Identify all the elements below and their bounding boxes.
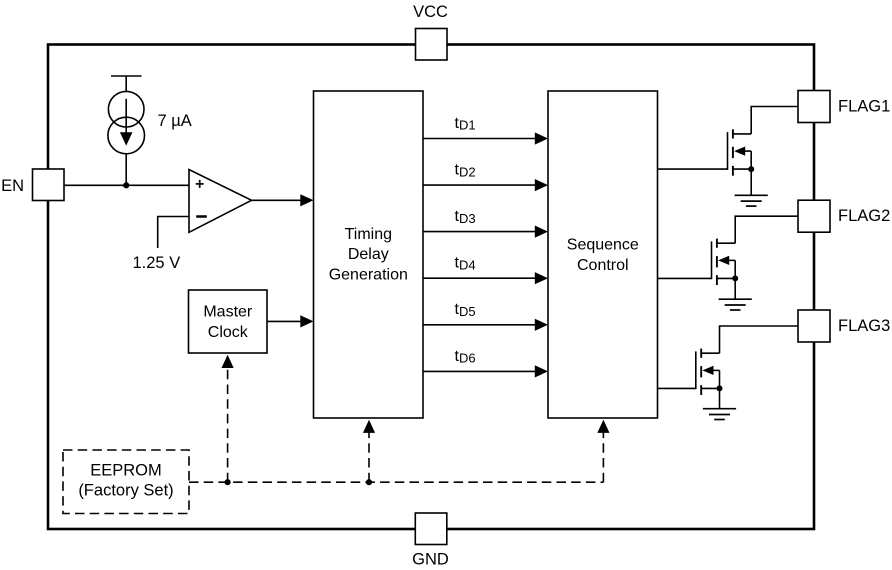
svg-text:Delay: Delay — [348, 246, 389, 263]
dashed wire: bus branch up to Sequence Control — [602, 432, 604, 483]
wire: 1.25 V reference to inverting input — [158, 217, 189, 249]
svg-text:tD3: tD3 — [455, 208, 476, 226]
svg-text:GND: GND — [412, 550, 449, 568]
wire: EN pin to comparator non-inverting input — [64, 184, 189, 186]
svg-text:tD4: tD4 — [455, 255, 476, 273]
transistor Q1 — [728, 129, 752, 175]
wire: Sequence Control output to Q3 gate — [658, 387, 696, 389]
transistor Q3 — [696, 349, 720, 395]
current source I1 (7 uA pull-down on EN) — [108, 76, 145, 185]
svg-text:Sequence: Sequence — [567, 237, 639, 254]
svg-text:tD5: tD5 — [455, 301, 476, 319]
pin FLAG3 — [798, 310, 830, 342]
wire: Master Clock output to Timing Delay Generation — [267, 320, 301, 322]
svg-text:tD6: tD6 — [455, 348, 476, 366]
svg-text:VCC: VCC — [413, 3, 448, 21]
svg-text:tD2: tD2 — [455, 162, 476, 180]
wire: Q2 drain to pin — [735, 216, 798, 243]
wire: Sequence Control output to Q2 gate — [658, 277, 712, 279]
svg-text:(Factory Set): (Factory Set) — [78, 482, 173, 500]
ground (Q3 source) — [719, 388, 721, 408]
junction dot: bus / Master Clock branch — [225, 479, 231, 485]
op-amp U1 comparator — [189, 170, 252, 233]
svg-text:Timing: Timing — [345, 226, 392, 243]
wire tD4: Timing Delay Generation to Sequence Control — [423, 277, 536, 279]
ground (Q1 source) — [750, 169, 752, 195]
wire: Q3 drain to pin — [720, 326, 799, 353]
pin EN — [33, 169, 65, 201]
wire tD5: Timing Delay Generation to Sequence Control — [423, 324, 536, 326]
wire: Sequence Control output to Q1 gate — [658, 168, 728, 170]
dashed wire: bus branch up to Timing Delay Generation — [368, 432, 370, 483]
svg-text:tD1: tD1 — [455, 115, 476, 133]
svg-text:Master: Master — [203, 303, 253, 320]
pin GND — [415, 513, 447, 545]
wire tD2: Timing Delay Generation to Sequence Control — [423, 184, 536, 186]
block: EEPROM (Factory Set), dashed — [63, 450, 189, 514]
svg-text:Generation: Generation — [329, 267, 408, 284]
junction dot: bus / Timing branch — [366, 479, 372, 485]
block: Timing Delay Generation — [314, 91, 424, 418]
ground (Q2 source) — [734, 278, 736, 299]
wire tD3: Timing Delay Generation to Sequence Control — [423, 231, 536, 233]
svg-text:FLAG2: FLAG2 — [838, 207, 890, 225]
svg-text:1.25 V: 1.25 V — [133, 254, 181, 272]
junction dot: Q2 source/body tie — [732, 275, 738, 281]
svg-text:Clock: Clock — [208, 324, 249, 341]
transistor Q2 — [712, 239, 736, 285]
svg-text:FLAG1: FLAG1 — [838, 98, 890, 116]
svg-text:EEPROM: EEPROM — [90, 461, 162, 479]
junction dot: Q1 source/body tie — [748, 166, 754, 172]
svg-text:EN: EN — [1, 177, 24, 195]
wire tD1: Timing Delay Generation to Sequence Control — [423, 138, 536, 140]
block: Master Clock — [189, 290, 268, 353]
pin FLAG1 — [798, 91, 830, 123]
svg-text:Control: Control — [577, 257, 629, 274]
wire tD6: Timing Delay Generation to Sequence Control — [423, 370, 536, 372]
junction dot: Q3 source/body tie — [717, 385, 723, 391]
dashed wire: EEPROM trim bus (horizontal) — [189, 481, 603, 483]
wire: Q1 drain to pin — [751, 107, 798, 134]
chip outline — [48, 45, 814, 530]
wire: comparator output to Timing Delay Generation — [252, 199, 302, 201]
pin FLAG2 — [798, 200, 830, 232]
dashed wire: bus branch up to Master Clock — [227, 367, 229, 483]
pin VCC — [416, 29, 448, 61]
svg-text:FLAG3: FLAG3 — [838, 317, 890, 335]
block: Sequence Control — [548, 91, 658, 418]
node: EN / current source junction — [123, 182, 129, 188]
svg-text:7 µA: 7 µA — [158, 112, 192, 130]
